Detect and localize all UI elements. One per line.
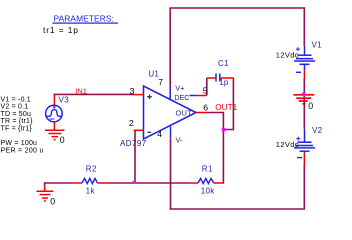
junction at OUT1/C1 node [222, 128, 226, 131]
svg-text:2: 2 [129, 118, 134, 128]
pin 5 lead (DEC) [190, 95, 197, 97]
R1 left lead [189, 182, 198, 184]
V3 top pin lead [53, 96, 55, 105]
V3 bottom pin lead [53, 122, 55, 130]
svg-text:TR = {tr1}: TR = {tr1} [1, 118, 34, 125]
svg-text:R2: R2 [86, 164, 97, 173]
capacitor C1 [216, 74, 220, 82]
voltage source V3 (VPULSE) [46, 105, 63, 122]
svg-text:tr1 = 1p: tr1 = 1p [43, 25, 79, 35]
pin 6 lead (OUT) [196, 112, 208, 114]
resistor R1 [198, 178, 214, 183]
svg-text:7: 7 [158, 77, 163, 87]
svg-text:TD = 50u: TD = 50u [1, 111, 32, 118]
svg-text:V1: V1 [312, 40, 323, 49]
svg-text:3: 3 [130, 86, 135, 96]
parameters title [53, 13, 119, 23]
svg-text:TF = {tr1}: TF = {tr1} [1, 125, 33, 132]
V1 bottom red lead [303, 70, 305, 80]
junction at feedback node [133, 181, 136, 184]
parameter tr1 value label [43, 25, 79, 35]
svg-text:12Vdc: 12Vdc [276, 51, 299, 60]
wire bottom (V- rail) [170, 208, 305, 210]
ground 0 bottom-left (feedback) [44, 186, 46, 191]
wire output OUT1 [208, 113, 224, 184]
svg-text:0: 0 [308, 101, 313, 111]
svg-text:1p: 1p [219, 78, 229, 87]
C1 right lead [221, 77, 234, 79]
ground 0 under V3 [45, 130, 65, 139]
R2 right lead [98, 182, 109, 184]
wire inverting input drop (pin 2 to feedback node) [134, 130, 136, 183]
svg-text:IN1: IN1 [75, 86, 87, 95]
svg-text:V3: V3 [59, 95, 70, 104]
svg-text:6: 6 [203, 102, 208, 112]
battery V1 (12Vdc) [294, 46, 315, 73]
battery V2 (12Vdc) [294, 129, 315, 158]
junction at mid ground [302, 93, 305, 96]
svg-text:V2 = 0.1: V2 = 0.1 [1, 104, 29, 111]
svg-text:DEC: DEC [174, 94, 189, 102]
op-amp U1 AD797 [144, 86, 197, 139]
svg-text:0: 0 [50, 197, 55, 207]
wire feedback rail left (gnd to R2) [45, 183, 71, 186]
svg-text:PER = 200 u: PER = 200 u [1, 147, 44, 154]
svg-text:OUT1: OUT1 [215, 103, 237, 112]
wire V- drop from op-amp pin 4 [170, 140, 172, 209]
wire top (V+ rail) [170, 7, 305, 9]
pin 3 lead (non-inverting input) [134, 94, 144, 96]
svg-text:4: 4 [157, 129, 162, 139]
wire V2 bottom [303, 165, 305, 210]
svg-text:R1: R1 [202, 165, 213, 174]
svg-text:5: 5 [203, 85, 208, 95]
wire IN1 from V3 to pin 3 [54, 94, 133, 96]
svg-text:OUT: OUT [176, 108, 193, 117]
C1 left lead [207, 77, 216, 79]
V2 bottom red lead [303, 153, 305, 165]
svg-text:V+: V+ [175, 84, 184, 93]
svg-text:PARAMETERS:: PARAMETERS: [54, 13, 115, 23]
svg-text:V1 = -0.1: V1 = -0.1 [1, 96, 31, 103]
R2 left lead [71, 182, 82, 184]
svg-text:10k: 10k [201, 186, 215, 195]
svg-text:V2: V2 [312, 126, 323, 135]
pin 7 lead (V+) [169, 86, 171, 99]
wire V+ riser to op-amp pin 7 [169, 7, 171, 86]
svg-text:V-: V- [176, 135, 184, 144]
svg-text:12Vdc: 12Vdc [276, 140, 299, 149]
ground 0 mid-right (split supply) [293, 95, 314, 104]
svg-text:AD797: AD797 [120, 139, 147, 148]
pin 2 lead (inverting input) [134, 129, 144, 131]
wire C1 right branch [223, 78, 233, 130]
V3 source parameter list [1, 96, 44, 154]
R1 right lead [214, 182, 224, 184]
wire V1 to ground 0 [303, 79, 305, 129]
svg-text:1k: 1k [86, 187, 96, 196]
wire pin 5 to C1 left [206, 78, 208, 96]
wire feedback rail middle (R2 to R1) [108, 182, 188, 184]
svg-text:0: 0 [60, 135, 65, 145]
resistor R2 [82, 178, 98, 183]
pin 4 lead (V-) [170, 126, 172, 138]
svg-text:C1: C1 [218, 59, 229, 68]
wire right side V1 top [303, 7, 305, 45]
svg-text:PW = 100u: PW = 100u [1, 140, 38, 147]
